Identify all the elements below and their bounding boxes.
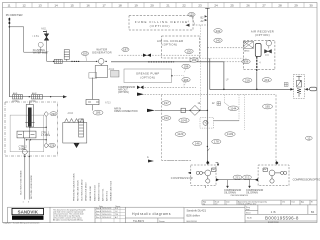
wire to water generator: [47, 52, 97, 61]
main pneumatic line right: [210, 88, 294, 90]
svg-text:2019-05-20: 2019-05-20: [102, 211, 111, 213]
dashed line into comp1: [162, 159, 191, 161]
svg-text:GREASE LINE G1/4: GREASE LINE G1/4: [110, 180, 113, 201]
svg-text:11: 11: [7, 3, 10, 7]
svg-text:19: 19: [134, 3, 138, 7]
balloon 230: [50, 112, 57, 116]
balloon 1043: [179, 118, 189, 123]
svg-text:24: 24: [214, 3, 218, 7]
svg-text:B000195596: B000195596: [187, 221, 197, 223]
interconnect line: [216, 179, 258, 181]
svg-text:T.M: T.M: [115, 214, 118, 216]
balloon 203: [81, 52, 88, 56]
svg-text:Hydraulic diagrams: Hydraulic diagrams: [132, 212, 171, 216]
svg-text:dept: dept: [246, 208, 250, 211]
svg-text:25: 25: [230, 3, 234, 7]
tank water generator: [95, 66, 108, 78]
svg-text:29: 29: [294, 3, 298, 7]
svg-text:DRAIN LINE DN10: DRAIN LINE DN10: [85, 182, 88, 201]
svg-text:175: 175: [189, 13, 194, 17]
compressor 2 internals: [263, 168, 287, 183]
balloon 197: [162, 101, 171, 105]
header cells: [203, 194, 313, 205]
main vertical air line: [205, 8, 210, 163]
svg-text:AIR OIL COOLER: AIR OIL COOLER: [157, 39, 183, 43]
title block: [8, 200, 318, 223]
svg-text:Item A: Item A: [96, 207, 102, 210]
inlet arrows comp2: [275, 161, 278, 165]
balloon 1149: [225, 132, 235, 137]
valve on water line: [86, 78, 99, 105]
svg-text:1:5: 1:5: [215, 204, 217, 206]
balloon 198: [182, 64, 190, 68]
balloon 212: [243, 175, 252, 179]
svg-text:LEAK OIL LINE: LEAK OIL LINE: [89, 185, 92, 201]
balloon 242: [214, 29, 222, 33]
dashed branch vertical: [199, 25, 246, 110]
svg-text:230: 230: [51, 112, 56, 116]
svg-text:2020-01-10: 2020-01-10: [102, 214, 111, 216]
drain texts: [224, 189, 264, 195]
balloon small br: [305, 136, 312, 140]
svg-text:RETURN LINE DN25: RETURN LINE DN25: [78, 179, 80, 201]
svg-text:B4: B4: [311, 210, 315, 214]
svg-text:ITEM DENOMINATION: ITEM DENOMINATION: [231, 194, 249, 197]
svg-text:OIL DRAIN: OIL DRAIN: [224, 192, 236, 195]
svg-text:1043: 1043: [181, 118, 188, 122]
svg-text:t 0.5m: t 0.5m: [12, 100, 19, 103]
left feed arrow comp1: [188, 172, 191, 174]
svg-text:(OPTION): (OPTION): [163, 43, 178, 47]
wire accumulator to relief: [27, 127, 47, 140]
inlet arrows comp1: [206, 161, 209, 165]
svg-text:2019-03-18: 2019-03-18: [102, 208, 111, 210]
svg-text:COMPRESSOR: COMPRESSOR: [171, 176, 193, 180]
corner mark comp1: [216, 163, 219, 167]
wire fume to main: [193, 24, 208, 26]
svg-text:App: App: [301, 200, 304, 203]
directional valve: [17, 131, 36, 138]
svg-text:No.ID: No.ID: [247, 218, 252, 220]
svg-text:240: 240: [216, 39, 221, 43]
svg-text:All rights reserved by Sandvik: All rights reserved by Sandvik Mining.: [53, 219, 83, 222]
legend vertical texts: [73, 173, 113, 201]
AIR RECEIVER label: [251, 29, 274, 37]
port labels 12: [198, 102, 216, 105]
receiver tank: [255, 44, 261, 57]
svg-text:186: 186: [96, 111, 101, 115]
pump unit top line: [9, 96, 63, 98]
svg-text:13: 13: [38, 3, 42, 7]
svg-text:WATER OUT G1/2: WATER OUT G1/2: [98, 182, 101, 201]
svg-text:kg: kg: [203, 204, 205, 206]
balloon 178: [212, 139, 221, 143]
svg-text:30: 30: [309, 3, 313, 7]
balloon 228: [48, 143, 55, 147]
svg-text:14: 14: [54, 3, 58, 7]
receiver internals: safety valve: [244, 42, 254, 49]
svg-text:20: 20: [150, 3, 154, 7]
air receiver box: [243, 40, 275, 69]
wires down from valve: [25, 138, 29, 200]
svg-text:212: 212: [245, 175, 250, 179]
svg-text:COMPRESSOR(OPTION): COMPRESSOR(OPTION): [293, 177, 320, 181]
svg-text:t 0.5m: t 0.5m: [33, 35, 40, 38]
center component cluster: filter diamond: [155, 105, 208, 115]
balloon 146: [193, 141, 202, 145]
svg-text:242: 242: [216, 29, 221, 33]
svg-text:PRESSURE GAUGE CONN: PRESSURE GAUGE CONN: [73, 173, 76, 201]
accumulator column: [26, 102, 33, 128]
svg-text:Rev C: Rev C: [96, 214, 102, 216]
arrow symbol legend: [137, 93, 144, 96]
balloon 211: [233, 175, 242, 179]
svg-text:Chk: Chk: [282, 201, 285, 203]
text water inlet: [33, 49, 49, 55]
relief valve 2: [44, 143, 48, 148]
balloon 187: [122, 48, 129, 52]
svg-text:Drawn: Drawn: [159, 221, 165, 223]
pressure regulator: [293, 74, 304, 98]
silencer: [305, 88, 310, 90]
CTRL text: [19, 132, 51, 152]
svg-text:12: 12: [307, 136, 311, 140]
svg-text:t 0.5m: t 0.5m: [29, 100, 36, 103]
FUME FILLING DEVICE box: [129, 16, 193, 30]
AIR OIL COOLER box: [162, 36, 200, 58]
grease out connector: [171, 75, 173, 77]
svg-text:1123: 1123: [177, 132, 184, 136]
pilot line: [214, 120, 240, 122]
svg-text:197: 197: [164, 101, 169, 105]
balloon 219: [262, 78, 271, 82]
svg-text:22: 22: [182, 3, 186, 7]
svg-text:AIR RECEIVER: AIR RECEIVER: [251, 29, 274, 33]
coupling symbol: [143, 54, 151, 57]
svg-text:196: 196: [184, 78, 189, 82]
gauge circle: [38, 42, 43, 47]
svg-text:GREASE PUMP: GREASE PUMP: [136, 72, 160, 76]
svg-text:LP: LP: [226, 79, 229, 82]
svg-text:Copyright © Sandvik Mining and: Copyright © Sandvik Mining and Construct…: [3, 221, 39, 224]
svg-text:Rev D: Rev D: [96, 217, 102, 219]
softener column: [64, 50, 69, 62]
revision table: [95, 207, 125, 223]
svg-text:146: 146: [195, 142, 200, 146]
power pack box dash-dot: [5, 102, 58, 156]
svg-text:17: 17: [102, 3, 106, 7]
fume device outlet valve: [186, 24, 190, 27]
svg-text:SUCTION LINE DN32: SUCTION LINE DN32: [82, 179, 84, 201]
svg-text:1 /6: 1 /6: [271, 210, 276, 214]
balloon 195: [263, 104, 273, 109]
svg-text:27: 27: [262, 3, 266, 7]
wire from PC drifter down: [8, 18, 10, 97]
balloon 218: [243, 78, 252, 82]
svg-text:GENERATOR: GENERATOR: [92, 51, 112, 55]
svg-text:SUCTION HOSE INSIDE: SUCTION HOSE INSIDE: [20, 170, 22, 195]
dashed wire to receiver: [207, 47, 243, 49]
svg-text:B000195596: B000195596: [268, 222, 279, 224]
A4 connector: [147, 156, 149, 159]
svg-text:A910: A910: [68, 112, 74, 115]
arrow end component: [63, 95, 67, 98]
receiver valves: [265, 50, 272, 54]
balloon 186: [93, 110, 103, 115]
hatch box: [217, 102, 221, 106]
hose labels vertical: [20, 170, 33, 199]
junction: [9, 26, 11, 28]
svg-text:A911: A911: [41, 27, 47, 30]
pump water generator: [98, 59, 104, 65]
balloon 1144: [228, 106, 238, 111]
hose marking: [148, 61, 174, 63]
svg-text:178: 178: [214, 140, 219, 144]
svg-text:AIR IN G1: AIR IN G1: [106, 190, 109, 201]
svg-text:15: 15: [70, 3, 74, 7]
inline component 2: [32, 95, 43, 99]
motor hatched: [111, 71, 120, 78]
svg-text:203: 203: [83, 52, 88, 56]
svg-text:211: 211: [235, 175, 240, 179]
disclaimer text: [53, 209, 86, 222]
svg-text:228: 228: [50, 143, 55, 147]
AIR IN legend: [114, 108, 138, 114]
strainer on water line: [54, 59, 62, 63]
svg-text:16: 16: [86, 3, 90, 7]
svg-text:1.5 MPa: 1.5 MPa: [41, 134, 51, 137]
svg-text:195: 195: [265, 105, 270, 109]
gauge on receiver: [266, 41, 271, 46]
node WATER GENERATOR label: [92, 47, 112, 54]
GREASE PUMP box: [124, 69, 172, 83]
svg-text:AIR OUT G1: AIR OUT G1: [102, 188, 105, 201]
compressor box 2: [258, 165, 289, 186]
svg-text:1144: 1144: [230, 106, 237, 110]
dashed line options top: [145, 94, 277, 96]
svg-text:(OPTION): (OPTION): [150, 24, 171, 28]
svg-text:193: 193: [164, 116, 169, 120]
svg-text:OIL DRAIN: OIL DRAIN: [246, 192, 258, 195]
ruler strip: [3, 3, 318, 8]
svg-text:187: 187: [123, 48, 128, 52]
svg-text:190: 190: [187, 49, 192, 53]
balloon 175: [188, 13, 195, 17]
svg-text:B26 drifter: B26 drifter: [187, 213, 200, 217]
balloon 190: [185, 49, 193, 53]
svg-text:23: 23: [198, 3, 202, 7]
inline component 1: [13, 95, 23, 99]
svg-text:18: 18: [118, 3, 122, 7]
svg-text:199: 199: [192, 58, 197, 62]
arrow down from A910: [74, 143, 80, 148]
svg-text:PC DRIFTER: PC DRIFTER: [6, 13, 23, 17]
compressor 1 internals: [196, 168, 216, 183]
relief valve diamond: [44, 112, 48, 117]
svg-text:(xxx): (xxx): [265, 55, 269, 57]
gauge pp: [22, 149, 27, 154]
svg-text:A914: A914: [244, 49, 250, 52]
svg-text:A713: A713: [105, 102, 111, 105]
svg-text:SANDVIK: SANDVIK: [18, 210, 39, 215]
balloon 193: [162, 116, 171, 120]
svg-text:26: 26: [246, 3, 250, 7]
receiver down pipe: [256, 57, 258, 72]
hose break: [74, 60, 80, 62]
small box M: [284, 83, 288, 87]
svg-text:(OPTION): (OPTION): [255, 33, 270, 37]
svg-text:219: 219: [264, 78, 269, 82]
drain stubs: [228, 180, 250, 187]
wire valve down: [46, 39, 48, 52]
hose line water out: [111, 61, 224, 63]
balloon 1123: [175, 132, 185, 137]
svg-text:OPEN CONNECTION: OPEN CONNECTION: [114, 110, 138, 113]
svg-text:198: 198: [184, 65, 189, 69]
svg-text:TIA-B374: TIA-B374: [133, 219, 145, 223]
small box left: [89, 73, 97, 79]
hatched column: [79, 119, 84, 137]
sandvik logo: [12, 208, 44, 214]
svg-text:B000195596-8: B000195596-8: [265, 215, 299, 220]
grease coupling dashed line: [119, 54, 200, 56]
svg-text:12: 12: [22, 3, 26, 7]
wire to water inlet branch: [9, 27, 46, 52]
balloon 199 on hose: [190, 58, 198, 62]
port labels B2: [201, 16, 205, 23]
compressor box 1: [191, 165, 216, 186]
svg-text:2020-06-02: 2020-06-02: [102, 217, 111, 219]
control valve cluster: [200, 118, 214, 129]
hose break marks on drifter wire: [8, 18, 10, 24]
svg-text:WATER IN G1/2: WATER IN G1/2: [94, 184, 97, 201]
svg-text:218: 218: [245, 78, 250, 82]
coupling symbol 2: [137, 86, 144, 90]
balloon 196: [182, 78, 190, 82]
svg-text:28: 28: [278, 3, 282, 7]
svg-text:2020-02-14 MHyva JKor: 2020-02-14 MHyva JKor: [238, 203, 257, 206]
svg-text:(OPTION): (OPTION): [118, 91, 129, 94]
inner box: [10, 115, 44, 152]
legend compressor air out: [118, 86, 136, 94]
big options dashed box: [162, 95, 277, 164]
svg-text:Dwn: Dwn: [292, 201, 295, 203]
svg-text:(OPTION): (OPTION): [140, 76, 155, 80]
drain mark comp1: [205, 186, 207, 188]
svg-text:Sheet: Sheet: [246, 212, 251, 215]
svg-text:21: 21: [166, 3, 170, 7]
svg-text:RETURN HOSE INSIDE: RETURN HOSE INSIDE: [31, 175, 33, 199]
svg-text:Sandvik DL421: Sandvik DL421: [187, 209, 207, 213]
svg-text:1149: 1149: [227, 132, 234, 136]
balloon 238: [242, 59, 250, 63]
branch hose to main: [223, 62, 225, 90]
balloon 240: [214, 38, 222, 42]
